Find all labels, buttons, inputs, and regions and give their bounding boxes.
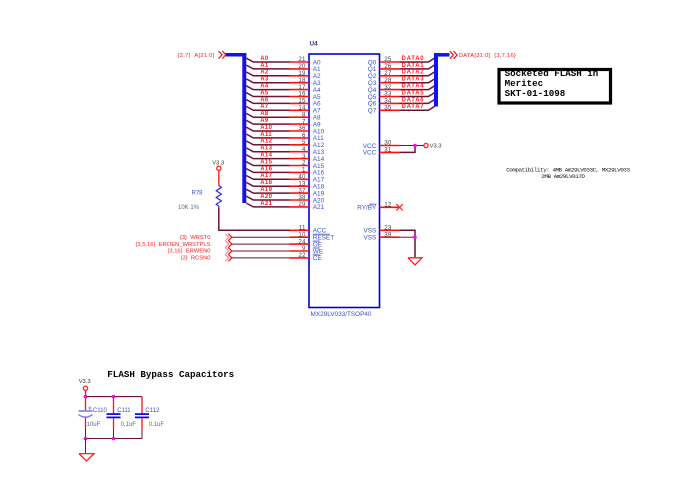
off-page arrow EROEN_WRSTPLS — [225, 241, 232, 248]
net label DATA3 — [402, 77, 425, 83]
off-page arrow ERWEN0 — [225, 248, 232, 255]
net label DATA[31:0] {3,7,16} — [459, 53, 516, 59]
svg-text:A21: A21 — [313, 204, 325, 211]
net label A6 — [260, 97, 269, 103]
pin 22 (CE) — [290, 252, 322, 262]
part value MX29LV033/TSOP40 — [311, 311, 372, 318]
wire DATA1 (horizontal + bus entry) — [400, 65, 435, 69]
wire DATA3 (horizontal + bus entry) — [400, 79, 435, 83]
wire A3 (bus entry + horizontal) — [246, 79, 289, 83]
pin 8 (A8) — [290, 111, 322, 121]
wire A18 (bus entry + horizontal) — [246, 182, 289, 186]
pin 18 (A3) — [290, 77, 322, 87]
svg-text:CE: CE — [313, 255, 322, 262]
svg-text:31: 31 — [384, 147, 392, 154]
svg-text:DATA4: DATA4 — [402, 84, 425, 90]
svg-text:10uF: 10uF — [87, 422, 101, 428]
pin 15 (A6) — [290, 98, 322, 108]
svg-text:A12: A12 — [260, 139, 272, 145]
svg-text:DATA5: DATA5 — [402, 90, 425, 96]
wire A10 (bus entry + horizontal) — [246, 127, 289, 131]
junction VCC net — [413, 144, 417, 148]
svg-text:VSS: VSS — [364, 235, 377, 242]
value 10uF — [87, 422, 101, 428]
net label ERWEN0 — [167, 249, 210, 255]
net label A14 — [260, 153, 272, 159]
wire A13 (bus entry + horizontal) — [246, 148, 289, 152]
svg-text:DATA0: DATA0 — [402, 56, 425, 62]
svg-text:Q7: Q7 — [368, 108, 377, 115]
note: compatibility text — [506, 166, 630, 180]
power symbol V3.3 (right) — [424, 143, 442, 149]
wire DATA2 (horizontal + bus entry) — [400, 72, 435, 76]
svg-text:A5: A5 — [260, 90, 269, 96]
wire EROEN_WRSTPLS — [232, 243, 290, 245]
svg-text:A6: A6 — [260, 97, 269, 103]
svg-text:2MB Am29LV017D: 2MB Am29LV017D — [541, 173, 585, 180]
net label A19 — [260, 187, 272, 193]
net label A1 — [260, 63, 269, 69]
wire DATA4 (horizontal + bus entry) — [400, 86, 435, 90]
bus A[21:0] (thick blue) — [226, 53, 247, 203]
pin 23 (VSS) — [364, 225, 400, 235]
wire A12 (bus entry + horizontal) — [246, 141, 289, 145]
net label DATA5 — [402, 90, 425, 96]
pin 25 (Q0) — [368, 56, 400, 66]
capacitor C110 (polarized 10uF) — [79, 397, 93, 439]
net label A16 — [260, 166, 272, 172]
value 0.1uF — [149, 422, 165, 428]
junction top rail at C110 — [84, 395, 88, 399]
wire A8 (bus entry + horizontal) — [246, 113, 289, 117]
pin 37 (A19) — [290, 187, 325, 197]
value 10K 1% — [178, 205, 200, 211]
wire WRST0 — [232, 236, 290, 238]
svg-text:0.1uF: 0.1uF — [121, 422, 137, 428]
wire A7 (bus entry + horizontal) — [246, 107, 289, 111]
pin 3 (A14) — [290, 153, 325, 163]
net label RCSN0 — [181, 256, 211, 262]
pin 28 (Q3) — [368, 77, 400, 87]
wire DATA6 (horizontal + bus entry) — [400, 99, 435, 103]
net label DATA6 — [402, 97, 425, 103]
svg-text:29: 29 — [298, 201, 306, 208]
wire VSS pin23 — [400, 230, 416, 257]
svg-text:{3} RCSN0: {3} RCSN0 — [181, 256, 211, 262]
pin 7 (A9) — [290, 118, 322, 128]
refdes R78 — [192, 191, 204, 197]
refdes C111 — [117, 408, 131, 414]
svg-text:A10: A10 — [260, 125, 272, 131]
value 0.1uF — [121, 422, 137, 428]
junction VSS net — [413, 235, 417, 239]
net label A13 — [260, 146, 272, 152]
svg-text:MX29LV033/TSOP40: MX29LV033/TSOP40 — [311, 311, 372, 318]
svg-text:A14: A14 — [260, 153, 272, 159]
pin 31 (VCC) — [363, 147, 400, 157]
svg-text:{3,7} A[21:0]: {3,7} A[21:0] — [177, 53, 214, 59]
svg-text:22: 22 — [298, 252, 306, 259]
pin 1 (A16) — [290, 167, 325, 177]
net label A3 — [260, 77, 269, 83]
svg-text:A16: A16 — [260, 166, 272, 172]
pin 20 (A1) — [290, 63, 322, 73]
svg-text:A11: A11 — [260, 132, 272, 138]
capacitor C112 (0.1uF) — [135, 397, 149, 439]
svg-text:V3.3: V3.3 — [430, 144, 442, 150]
bus entry arrow A[21:0] — [219, 51, 226, 59]
wire VSS pin39 — [400, 236, 416, 238]
wire RCSN0 — [232, 257, 290, 259]
pin 2 (A15) — [290, 160, 325, 170]
wire A20 (bus entry + horizontal) — [246, 196, 289, 200]
IC U4 body — [309, 54, 380, 308]
pin 4 (A13) — [290, 146, 325, 156]
net label A2 — [260, 70, 269, 76]
wire bottom rail to ground — [85, 439, 87, 454]
pin 29 (A21) — [290, 201, 325, 211]
net label A9 — [260, 118, 269, 124]
svg-text:DATA[31:0] {3,7,16}: DATA[31:0] {3,7,16} — [459, 53, 516, 59]
svg-text:A17: A17 — [260, 173, 272, 179]
net label A17 — [260, 173, 272, 179]
refdes C110 — [93, 408, 108, 414]
wire A19 (bus entry + horizontal) — [246, 189, 289, 193]
svg-text:A21: A21 — [260, 201, 272, 207]
refdes C112 — [145, 408, 160, 414]
wire A4 (bus entry + horizontal) — [246, 86, 289, 90]
pin 16 (A5) — [290, 91, 322, 101]
svg-text:V3.3: V3.3 — [79, 379, 91, 385]
off-page arrow WRST0 — [225, 234, 232, 241]
svg-text:C112: C112 — [145, 408, 160, 414]
wire A15 (bus entry + horizontal) — [246, 162, 289, 166]
net label A20 — [260, 194, 272, 200]
svg-text:DATA6: DATA6 — [402, 97, 425, 103]
pin 27 (Q2) — [368, 70, 400, 80]
wire top rail — [86, 396, 143, 398]
net label A11 — [260, 132, 272, 138]
ground symbol (caps) — [79, 454, 94, 461]
pin 30 (VCC) — [363, 140, 400, 150]
pin 33 (Q5) — [368, 91, 400, 101]
net label A8 — [260, 111, 269, 117]
net label DATA2 — [402, 70, 425, 76]
pin 9 (WE) — [290, 245, 324, 255]
capacitor C111 (0.1uF) — [107, 397, 121, 439]
svg-text:DATA1: DATA1 — [402, 63, 425, 69]
wire DATA0 (horizontal + bus entry) — [400, 58, 435, 62]
pin 5 (A12) — [290, 139, 325, 149]
wire A21 (bus entry + horizontal) — [246, 203, 289, 207]
svg-text:A18: A18 — [260, 180, 272, 186]
pin 34 (Q6) — [368, 98, 400, 108]
svg-text:12: 12 — [384, 202, 392, 209]
svg-text:C110: C110 — [93, 408, 108, 414]
pin 24 (OE) — [290, 238, 323, 248]
wire VCC pin31 up to junction — [400, 146, 416, 153]
bus exit arrow DATA[31:0] — [450, 51, 457, 59]
off-page arrow RCSN0 — [225, 254, 232, 261]
wire V3.3 to R78 — [218, 171, 220, 186]
svg-text:R78: R78 — [192, 191, 204, 197]
wire R78 to ACC pin 11 — [219, 208, 290, 230]
wire A0 (bus entry + horizontal) — [246, 58, 289, 62]
wire A17 (bus entry + horizontal) — [246, 176, 289, 180]
pin 17 (A4) — [290, 84, 322, 94]
svg-text:{3} WRST0: {3} WRST0 — [180, 235, 211, 241]
net label WRST0 — [180, 235, 211, 241]
pin 10 (RESET) — [290, 231, 335, 241]
net label A12 — [260, 139, 272, 145]
svg-text:DATA3: DATA3 — [402, 77, 425, 83]
pin 26 (Q1) — [368, 63, 400, 73]
pin 19 (A2) — [290, 70, 322, 80]
pin 35 (Q7) — [368, 105, 400, 115]
junction top rail at C111 — [112, 395, 116, 399]
net label DATA7 — [402, 104, 425, 110]
power symbol V3.3 (R78) — [212, 161, 224, 171]
pin 13 (A18) — [290, 180, 325, 190]
svg-text:A4: A4 — [260, 84, 269, 90]
wire ERWEN0 — [232, 250, 290, 252]
svg-text:{3,5,16} EROEN_WRSTPLS: {3,5,16} EROEN_WRSTPLS — [135, 242, 210, 248]
pin 6 (A11) — [290, 132, 325, 142]
ground symbol (VSS) — [408, 258, 422, 265]
net label A7 — [260, 104, 269, 110]
net label {3,7} A[21:0] — [177, 53, 214, 59]
svg-text:A19: A19 — [260, 187, 272, 193]
svg-text:DATA7: DATA7 — [402, 104, 425, 110]
wire A6 (bus entry + horizontal) — [246, 100, 289, 104]
pin 40 (A17) — [290, 174, 325, 184]
net label A0 — [260, 56, 269, 62]
wire A11 (bus entry + horizontal) — [246, 134, 289, 138]
wire bottom rail — [86, 438, 143, 440]
pin 21 (A0) — [290, 56, 322, 66]
pin 36 (A10) — [290, 125, 325, 135]
svg-text:{3,16} ERWEN0: {3,16} ERWEN0 — [167, 249, 210, 255]
svg-text:VCC: VCC — [363, 150, 377, 157]
net label A5 — [260, 90, 269, 96]
pin 39 (VSS) — [364, 231, 400, 241]
svg-text:A9: A9 — [260, 118, 269, 124]
bus DATA[31:0] (thick blue) — [434, 53, 450, 107]
svg-text:C111: C111 — [117, 408, 131, 414]
resistor R78 — [216, 186, 221, 209]
net label DATA1 — [402, 63, 425, 69]
pin 12 (RY/BY) no-connect — [357, 202, 403, 212]
svg-text:A8: A8 — [260, 111, 269, 117]
svg-text:A15: A15 — [260, 159, 272, 165]
wire A2 (bus entry + horizontal) — [246, 72, 289, 76]
svg-text:A2: A2 — [260, 70, 269, 76]
svg-text:U4: U4 — [310, 40, 319, 47]
junction bottom rail at C111 — [112, 437, 116, 441]
power symbol V3.3 (caps) — [79, 379, 91, 391]
pin 38 (A20) — [290, 194, 325, 204]
title: FLASH Bypass Capacitors — [107, 369, 234, 380]
wire A1 (bus entry + horizontal) — [246, 65, 289, 69]
net label DATA4 — [402, 84, 425, 90]
svg-text:A7: A7 — [260, 104, 269, 110]
svg-text:39: 39 — [384, 231, 392, 238]
svg-text:RY/BY: RY/BY — [357, 205, 377, 212]
svg-text:10K 1%: 10K 1% — [178, 205, 200, 211]
svg-text:FLASH Bypass Capacitors: FLASH Bypass Capacitors — [107, 369, 234, 380]
wire A9 (bus entry + horizontal) — [246, 120, 289, 124]
svg-text:A1: A1 — [260, 63, 269, 69]
wire A14 (bus entry + horizontal) — [246, 155, 289, 159]
wire DATA5 (horizontal + bus entry) — [400, 93, 435, 97]
svg-text:A13: A13 — [260, 146, 272, 152]
net label A21 — [260, 201, 272, 207]
wire DATA7 (horizontal + bus entry) — [400, 106, 435, 110]
net label A10 — [260, 125, 272, 131]
svg-text:0.1uF: 0.1uF — [149, 422, 165, 428]
refdes U4 — [310, 40, 319, 47]
svg-text:A20: A20 — [260, 194, 272, 200]
wire A5 (bus entry + horizontal) — [246, 93, 289, 97]
wire A16 (bus entry + horizontal) — [246, 169, 289, 173]
wire V3.3 to top rail — [85, 391, 87, 397]
net label A15 — [260, 159, 272, 165]
note box: Socketed FLASH in Meritec SKT-01-1098 — [499, 68, 611, 103]
svg-text:V3.3: V3.3 — [212, 161, 224, 167]
svg-text:35: 35 — [384, 105, 392, 112]
junction bottom rail at C110 — [84, 437, 88, 441]
net label EROEN_WRSTPLS — [135, 242, 210, 248]
net label DATA0 — [402, 56, 425, 62]
pin 11 (ACC) — [290, 225, 327, 235]
pin 14 (A7) — [290, 105, 322, 115]
svg-text:A0: A0 — [260, 56, 269, 62]
net label A4 — [260, 84, 269, 90]
wire VCC pin30 to V3.3 — [400, 145, 424, 147]
pin 32 (Q4) — [368, 84, 400, 94]
svg-text:SKT-01-1098: SKT-01-1098 — [505, 88, 566, 99]
svg-text:A3: A3 — [260, 77, 269, 83]
svg-text:DATA2: DATA2 — [402, 70, 425, 76]
net label A18 — [260, 180, 272, 186]
